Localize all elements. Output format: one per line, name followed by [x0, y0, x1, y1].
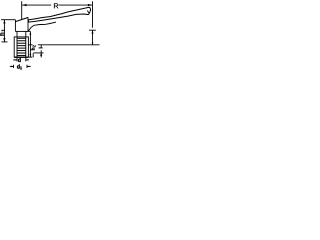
head left edge — [14, 20, 16, 32]
dimension d: right arrowhead (outside, tip at tick) — [26, 59, 28, 61]
dimension d1: left arrowhead — [11, 66, 13, 68]
dimension d: left arrowhead (outside, tip at tick) — [15, 59, 17, 61]
dimension h2: bottom tick — [29, 56, 33, 58]
dimension h1: bottom arrowhead — [3, 38, 5, 42]
bushing bottom thick edge — [14, 56, 28, 58]
dimension h2: bottom arrowhead — [30, 54, 32, 57]
short extension stub left of t tick — [32, 53, 34, 57]
dimension d1: right arrow line — [27, 65, 31, 67]
dimension h right: dimension line — [92, 31, 94, 45]
dimension d: right arrow shaft — [26, 59, 30, 61]
dimension R: left arrowhead — [22, 4, 26, 6]
mounting surface datum line left segment — [28, 44, 32, 46]
dimension t: upper line segment — [40, 45, 42, 48]
dimension R: right extension line — [92, 1, 94, 28]
dimension R: dimension line left segment — [22, 4, 51, 6]
label h2 (rotated) — [31, 45, 35, 50]
dimension h2: top arrowhead — [30, 32, 32, 35]
label d — [18, 58, 20, 62]
dimension h1: top arrowhead — [3, 20, 5, 24]
dimension R: dimension line right segment — [59, 4, 93, 6]
neck right edge — [25, 31, 27, 37]
dimension t: bottom arrowhead (below, pointing up) — [40, 53, 42, 56]
bushing outline — [14, 37, 28, 57]
dimension h right: top tick — [89, 29, 96, 31]
dimension t: bottom tick — [34, 52, 44, 54]
dimension h right: bottom arrowhead — [92, 43, 94, 45]
handle tip inner edge — [87, 11, 89, 14]
handle bottom flare line — [28, 22, 56, 31]
head right edge — [27, 18, 29, 32]
dimension h1: top extension line — [1, 19, 15, 21]
neck left edge — [16, 31, 18, 37]
dimension d1: right arrowhead — [27, 66, 29, 68]
dimension d1: right tick — [26, 65, 28, 68]
dimension h1: bottom tick — [2, 41, 8, 43]
dimension t: tail below tick — [40, 53, 42, 58]
thread bore right line — [25, 37, 27, 62]
dimension h right: top arrowhead — [91, 31, 93, 34]
dimension d: left arrow shaft — [13, 59, 16, 61]
label R — [54, 3, 58, 8]
dimension t: label t crossbar (rotated t) — [39, 47, 43, 49]
head top edge — [15, 17, 28, 21]
lever handle (filled silhouette) — [28, 7, 90, 22]
dimension R: left extension line — [21, 1, 23, 19]
mounting surface datum line right segment — [38, 44, 100, 46]
dimension d1: left tick — [13, 65, 15, 68]
dimension h1: dimension line — [3, 20, 5, 42]
head underside — [15, 30, 30, 32]
label h1 (rotated) — [0, 29, 5, 35]
thread bore left line — [16, 37, 18, 62]
dimension h2: dimension line — [29, 32, 31, 57]
dimension t: lower line segment — [40, 50, 42, 53]
thread bands — [17, 38, 26, 55]
label d1 — [17, 64, 19, 68]
dimension d1: left arrow line — [10, 65, 14, 67]
dimension R: right arrowhead — [88, 4, 92, 6]
